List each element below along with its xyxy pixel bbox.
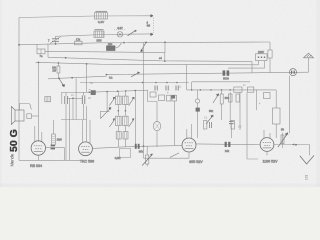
wire yL2	[45, 51, 165, 52]
speaker LS	[11, 104, 38, 125]
electrolytic C6 oval	[154, 122, 161, 147]
vertical x174	[174, 101, 176, 145]
resistor above V3 b	[231, 121, 234, 130]
wire mains LC2	[107, 72, 309, 74]
electrolytic box C9	[273, 90, 281, 138]
wire V3 right	[196, 143, 260, 146]
switch S5b	[206, 115, 213, 124]
coil column verticals	[118, 91, 125, 147]
IF coil row2	[116, 116, 129, 125]
chassis V symbol	[300, 155, 314, 164]
wire mid small	[100, 111, 109, 113]
wire mains corner up	[308, 58, 310, 72]
wire y119	[61, 119, 87, 121]
svg-text:0,5M: 0,5M	[115, 156, 121, 160]
resistor R6	[236, 94, 240, 102]
node V4 right	[295, 144, 297, 146]
vertical x135	[134, 91, 136, 145]
potentiometer P1	[142, 146, 152, 166]
svg-text:220V: 220V	[258, 50, 264, 54]
switch arrows band	[101, 97, 135, 127]
vertical mains drop	[288, 76, 290, 133]
box 7a	[37, 44, 45, 54]
switch S5a	[213, 94, 219, 103]
svg-text:4M: 4M	[147, 25, 150, 28]
capacitor C8	[229, 122, 234, 124]
node H3-146	[145, 42, 147, 44]
dashed gang link	[152, 18, 154, 33]
wire LD ladder4	[80, 82, 189, 84]
svg-text:555: 555	[96, 38, 101, 42]
switch S3	[59, 79, 64, 87]
node H3-165	[164, 41, 166, 43]
vertical x230	[230, 92, 231, 138]
svg-text:0,4V: 0,4V	[98, 20, 104, 24]
vertical x66 down	[65, 104, 67, 160]
vertical x165	[164, 42, 166, 61]
transformer T1	[45, 97, 51, 102]
svg-text:TKC 536: TKC 536	[80, 159, 94, 163]
capacitor C2b	[82, 95, 85, 104]
wire top bus H1	[19, 16, 150, 18]
node H3-124	[123, 42, 125, 44]
tube V4	[260, 130, 274, 155]
svg-text:50 G: 50 G	[8, 129, 20, 152]
stub caps top	[66, 92, 84, 96]
wire V4 right	[274, 144, 310, 146]
wire LB ladder2	[36, 62, 259, 65]
vertical x270 top	[269, 42, 271, 73]
wire bottom bus	[19, 159, 83, 161]
wire LC ladder3	[48, 76, 107, 79]
svg-text:17k: 17k	[76, 37, 81, 41]
resistor R2 dark	[107, 43, 122, 51]
resistor R5	[229, 94, 233, 102]
capacitor C2a	[65, 96, 68, 104]
IF coil row1	[116, 96, 129, 104]
tube V1	[31, 126, 45, 160]
vertical x73	[72, 98, 74, 119]
boxes top of coil area	[150, 92, 176, 101]
diagonal wire V3	[170, 153, 179, 158]
coil L2	[94, 30, 104, 38]
IF coil row3	[116, 132, 128, 140]
wire mid-right bus	[187, 89, 276, 91]
svg-text:5000: 5000	[223, 77, 229, 81]
wire cap link	[67, 97, 82, 99]
scan edge shading	[0, 184, 320, 188]
vertical x38	[38, 62, 40, 140]
svg-text:1166 52V: 1166 52V	[262, 160, 278, 164]
capacitor mid dark	[135, 144, 140, 149]
svg-text:RE 034: RE 034	[30, 164, 42, 168]
wire left border vertical	[18, 18, 20, 161]
wire corner LE to oval	[148, 90, 157, 121]
svg-text:500: 500	[225, 96, 230, 100]
arrowheads dark	[62, 30, 288, 157]
vertical x256	[256, 90, 258, 110]
mains plug X1	[290, 69, 297, 76]
capacitor netz dark	[223, 70, 230, 75]
node LD dots	[142, 82, 178, 84]
vertical x76	[75, 78, 77, 119]
fuse F1	[268, 50, 272, 58]
switch S2	[141, 42, 146, 51]
tube V2	[79, 106, 93, 156]
vertical x186	[186, 65, 188, 90]
ground GND1	[304, 53, 314, 58]
arrow V4 wire	[292, 144, 294, 146]
svg-text:6,3V: 6,3V	[117, 26, 123, 30]
vertical x83	[83, 104, 85, 120]
wire LD2	[192, 81, 250, 83]
tube V3	[182, 124, 196, 158]
svg-text:131: 131	[305, 174, 309, 180]
box right small	[264, 93, 271, 99]
vertical x48	[47, 44, 49, 58]
svg-text:250: 250	[108, 42, 113, 46]
hanging caps LD	[155, 86, 178, 91]
transformer T2 dark	[89, 89, 96, 94]
svg-text:0,1: 0,1	[109, 75, 113, 79]
arrow end H2	[150, 33, 153, 35]
coil L1	[95, 11, 108, 19]
capacitor C7 dark	[225, 142, 231, 147]
vertical x240	[239, 92, 241, 130]
shield box bottom	[120, 149, 131, 158]
node cap link	[72, 97, 74, 99]
vertical x143 to bottom	[143, 146, 145, 158]
wire right drops	[251, 61, 253, 72]
node coil mids	[118, 110, 127, 112]
svg-text:50k: 50k	[139, 149, 144, 153]
svg-text:1M5: 1M5	[57, 138, 63, 142]
vertical LD2 corner	[191, 82, 193, 90]
switch S1	[128, 31, 137, 36]
node LC2 start	[106, 74, 108, 76]
voltage selector box	[256, 54, 268, 68]
vertical x61	[61, 93, 63, 105]
trimmer capacitor C1	[50, 36, 61, 43]
choke right of V1	[52, 120, 56, 145]
node wire V2V3	[143, 145, 145, 147]
wire LA ladder1	[48, 57, 252, 61]
capacitor V1 dark	[51, 145, 55, 150]
wire V1 right	[46, 147, 65, 149]
resistor above V3 a	[204, 121, 212, 130]
wire ladder y68 right	[228, 67, 265, 69]
switch S4	[131, 72, 140, 76]
arrow end H1	[150, 15, 153, 17]
vertical x143	[143, 42, 145, 147]
lamp LA1	[114, 30, 126, 37]
vertical x69	[69, 98, 71, 160]
vertical x64	[63, 148, 65, 161]
coil hatch	[117, 96, 126, 139]
resistor R3	[57, 63, 60, 79]
vertical to chassis	[309, 145, 311, 156]
vertical x86	[86, 64, 88, 92]
wire bottom right bus	[144, 157, 190, 159]
wire V2 to V3	[92, 146, 182, 149]
boxes on MR bus	[234, 87, 254, 92]
node LA-65	[65, 57, 67, 59]
svg-text:Mende: Mende	[10, 153, 15, 166]
node H3-57	[55, 43, 57, 45]
label Mende 50G	[8, 129, 20, 166]
svg-text:10k: 10k	[225, 149, 230, 153]
wire H3	[19, 42, 270, 45]
resistor R4	[220, 90, 223, 120]
vertical x107	[106, 92, 108, 112]
rheostat V4	[278, 133, 288, 148]
vertical x247	[247, 92, 258, 159]
resistor R1	[75, 41, 83, 45]
node LC dots	[58, 77, 73, 79]
svg-text:955 52V: 955 52V	[189, 160, 203, 164]
node H3-19	[18, 44, 20, 46]
vertical x100	[100, 112, 102, 119]
node LB dots	[38, 62, 88, 65]
wire H2	[56, 34, 151, 36]
node MR dots	[191, 89, 231, 91]
node LE dots	[89, 90, 137, 93]
wire LE	[61, 90, 148, 92]
grid circle	[195, 90, 199, 138]
